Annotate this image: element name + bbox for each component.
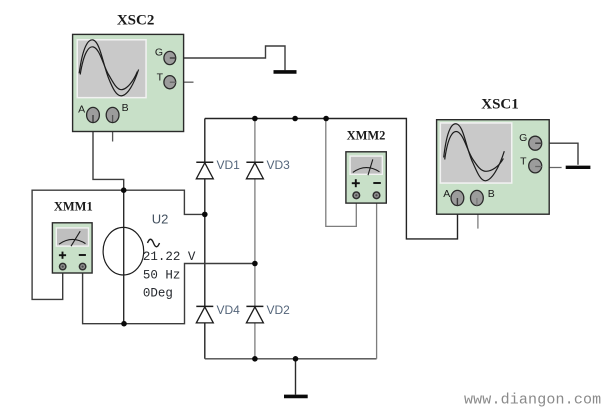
wire XSC2 A probe to node: [93, 121, 124, 191]
node dot bridge right mid: [252, 261, 258, 267]
node dot U2 top tap: [121, 187, 127, 193]
XMM2 plus mark: [352, 182, 360, 184]
diode VD3: [246, 158, 290, 179]
XMM1 minus mark: [79, 254, 86, 256]
XSC2 trace 2: [80, 47, 137, 90]
wire XSC2 B stub: [112, 121, 114, 142]
node dot bottom rail at ground: [293, 356, 299, 362]
svg-text:21.22 V: 21.22 V: [143, 250, 196, 264]
XMM2 meter arc: [353, 168, 380, 173]
svg-text:B: B: [122, 102, 129, 114]
XMM1 minus terminal: [79, 263, 85, 269]
ground bottom: [284, 395, 308, 399]
oscilloscope XSC1: [437, 96, 550, 214]
wire XMM1 plus to bridge left mid node: [32, 190, 205, 299]
XMM2 body: [346, 152, 386, 203]
svg-text:XSC2: XSC2: [117, 12, 155, 28]
svg-text:0Deg: 0Deg: [143, 287, 173, 301]
svg-text:50 Hz: 50 Hz: [143, 269, 181, 283]
XMM2 needle: [368, 159, 373, 175]
wire U2 vertical through source: [123, 190, 125, 324]
node dot bridge left mid: [202, 212, 208, 218]
wire bottom ground stem: [295, 359, 297, 395]
XMM1 meter arc: [59, 239, 86, 244]
wire XMM1 minus to bridge right mid node: [83, 264, 255, 324]
XSC1 terminal B: [471, 190, 484, 205]
XSC1 terminal A: [451, 190, 464, 205]
XSC1 trace 2: [445, 132, 504, 172]
wire XSC1 B stub: [477, 205, 479, 229]
wire XSC1 T stub: [542, 167, 562, 169]
diode VD2: [246, 303, 290, 323]
XMM1 plus mark: [59, 254, 66, 256]
svg-text:B: B: [488, 188, 495, 200]
svg-text:T: T: [157, 72, 164, 84]
XSC2 screen: [77, 39, 147, 98]
svg-text:A: A: [443, 188, 450, 200]
XMM1 body: [52, 223, 92, 273]
XMM1 display: [56, 227, 90, 247]
svg-text:www.diangon.com: www.diangon.com: [464, 392, 601, 409]
wire XMM2 minus lead: [376, 199, 378, 359]
wire XSC2 G to ground: [176, 46, 285, 70]
wire XSC1 G to ground: [542, 143, 579, 165]
AC source U2: [103, 212, 196, 301]
svg-text:U2: U2: [152, 212, 169, 227]
XMM2 plus terminal: [353, 192, 360, 199]
XSC2 body: [73, 34, 184, 131]
XSC2 terminal T: [164, 76, 176, 89]
XSC2 terminal G: [164, 51, 176, 64]
XSC1 terminal G: [529, 136, 542, 150]
XMM2 minus terminal: [373, 192, 380, 199]
svg-text:VD3: VD3: [267, 158, 291, 172]
svg-text:XMM2: XMM2: [347, 129, 386, 143]
multimeter XMM1: [52, 200, 92, 273]
wire left bridge branch: [204, 119, 206, 359]
node dot on top rail at XMM2 plus tap: [323, 116, 329, 122]
svg-text:XMM1: XMM1: [54, 200, 93, 214]
ground top: [274, 70, 297, 74]
XSC1 screen: [440, 122, 513, 184]
node dot on top rail (middle): [292, 116, 298, 122]
svg-text:VD1: VD1: [217, 158, 241, 172]
multimeter XMM2: [346, 129, 386, 204]
node dot U2 bottom tap: [121, 321, 127, 327]
node dot on top rail at VD3 branch: [252, 116, 258, 122]
wire XMM2 plus lead: [326, 119, 357, 227]
diode VD4: [196, 303, 240, 323]
XSC1 terminal T: [529, 159, 542, 173]
XMM2 display: [349, 155, 383, 175]
XSC2 terminal A: [87, 107, 100, 122]
svg-text:A: A: [78, 104, 85, 116]
diode VD1: [196, 158, 240, 179]
ground right of XSC1: [566, 166, 591, 169]
XMM1 needle: [71, 231, 80, 246]
XSC1 body: [437, 120, 550, 215]
XSC2 trace 1: [79, 40, 138, 96]
XMM1 plus terminal: [60, 263, 66, 269]
svg-text:VD2: VD2: [267, 303, 291, 317]
svg-text:T: T: [520, 156, 527, 168]
U2 sine symbol: [148, 239, 160, 247]
oscilloscope XSC2: [73, 12, 184, 131]
svg-text:G: G: [155, 46, 163, 58]
svg-text:G: G: [519, 132, 527, 144]
wire XSC2 T stub: [176, 81, 193, 83]
XMM2 minus mark: [373, 182, 381, 184]
svg-text:VD4: VD4: [217, 303, 241, 317]
svg-text:XSC1: XSC1: [481, 96, 519, 112]
XSC2 terminal B: [106, 107, 119, 122]
wire bottom rail: [205, 358, 377, 360]
U2 source circle: [103, 227, 144, 275]
node dot bottom rail at VD2 branch: [252, 356, 258, 362]
wire top rail from bridge top to XSC1 A: [205, 119, 458, 239]
wire right bridge branch: [254, 119, 256, 359]
XSC1 trace 1: [444, 124, 505, 181]
